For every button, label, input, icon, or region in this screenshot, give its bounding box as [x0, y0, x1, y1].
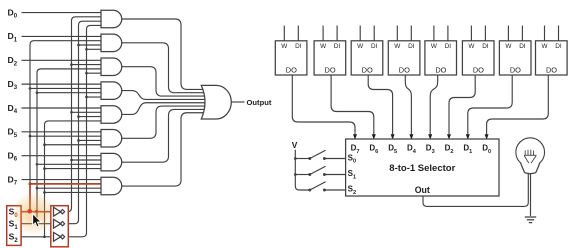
junction S0-bar — [70, 63, 73, 66]
AND gate G6 — [101, 130, 122, 148]
svg-text:DO: DO — [435, 65, 446, 74]
wire S1-bar branch gate6 — [79, 139, 102, 141]
junction S2-bar — [85, 72, 88, 75]
memory cell M0 box — [275, 41, 307, 75]
wire S2-bar vertical from inverter U3 — [65, 25, 101, 236]
wire DI stub M0 — [297, 26, 299, 41]
junction S0-bar — [70, 111, 73, 114]
wire S2-bar branch gate2 — [87, 48, 102, 50]
junction S2 — [43, 167, 46, 170]
wire S1 branch gate8 — [37, 187, 101, 189]
pin arrow D4 — [409, 134, 413, 139]
wire DI stub M7 — [558, 26, 560, 41]
wire M1 DO to selector D6 — [331, 75, 374, 134]
wire S0-bar branch gate3 — [72, 64, 102, 66]
AND gate G4 — [101, 82, 122, 100]
wire gate1 output — [122, 19, 209, 89]
svg-text:DO: DO — [473, 65, 484, 74]
AND gate G1 — [101, 10, 122, 28]
svg-text:W: W — [431, 43, 438, 50]
wire SW1 to selector S0 — [324, 158, 345, 160]
inverter U1 — [54, 207, 61, 216]
wire S0-bar branch gate7 — [72, 159, 102, 161]
junction S1 — [36, 163, 39, 166]
or-gate U9 — [201, 85, 231, 119]
wire V vertical — [295, 150, 310, 190]
junction S2-bar — [85, 96, 88, 99]
junction S1 — [36, 187, 39, 190]
wire S2-bar branch gate4 — [87, 96, 102, 98]
wire D1 input line — [22, 35, 102, 37]
memory cell M6 box — [499, 41, 531, 75]
wire gate5 output — [122, 103, 209, 115]
svg-text:DO: DO — [510, 65, 521, 74]
wire D3 input line — [22, 83, 102, 85]
wire M4 DO to selector D3 — [430, 75, 438, 134]
junction S1-bar — [77, 139, 80, 142]
svg-text:DO: DO — [399, 65, 410, 74]
wire W stub M1 — [322, 26, 324, 41]
junction S0 red (hover) — [27, 209, 32, 214]
wire S2 branch gate6 — [45, 144, 102, 146]
AND gate G5 — [101, 106, 122, 124]
wire S1-bar vertical from inverter U2 — [65, 21, 101, 224]
svg-text:DI: DI — [371, 43, 378, 50]
wire S0 branch gate6 — [30, 135, 101, 137]
pin arrow D2 — [447, 134, 451, 139]
wire DI stub M4 — [447, 26, 449, 41]
wire S1 row — [21, 223, 53, 225]
wire W stub M3 — [396, 26, 398, 41]
wire DI stub M1 — [336, 26, 338, 41]
wire highlighted S0 net vertical (red) — [29, 184, 31, 212]
wire DI stub M3 — [410, 26, 412, 41]
svg-text:8-to-1 Selector: 8-to-1 Selector — [389, 163, 455, 174]
cursor pointer — [33, 214, 41, 228]
svg-text:DO: DO — [325, 65, 336, 74]
svg-text:DI: DI — [408, 43, 415, 50]
AND gate G2 — [101, 34, 122, 52]
svg-text:Out: Out — [415, 185, 430, 195]
svg-text:W: W — [320, 43, 327, 50]
wire S2-bar branch gate3 — [87, 72, 102, 74]
wire gate7 output — [122, 109, 209, 162]
wire SW3 to selector S2 — [324, 189, 345, 191]
wire V branch SW1 — [295, 158, 310, 160]
wire S1 vertical — [37, 69, 101, 224]
pin arrow D0 — [485, 134, 489, 139]
switch SW1 — [308, 157, 311, 160]
wire S1 branch gate4 — [37, 92, 101, 94]
wire S1-bar branch gate5 — [79, 116, 102, 118]
wire M2 DO to selector D5 — [368, 75, 392, 134]
wire DI stub M2 — [373, 26, 375, 41]
svg-text:W: W — [541, 43, 548, 50]
wire S0 branch gate4 — [30, 87, 101, 89]
wire W stub M6 — [507, 26, 509, 41]
memory cell M2 box — [351, 41, 383, 75]
wire gate4 output — [122, 91, 209, 100]
wire S0-bar vertical from inverter U1 — [65, 17, 101, 212]
wire S1-bar branch gate2 — [79, 44, 102, 46]
svg-text:W: W — [468, 43, 475, 50]
junction S1 — [36, 91, 39, 94]
AND gate G3 — [101, 58, 122, 76]
wire W stub M0 — [283, 26, 285, 41]
wire M3 DO to selector D4 — [405, 75, 411, 134]
pin arrow D3 — [428, 134, 432, 139]
wire W stub M7 — [544, 26, 546, 41]
wire gate6 output — [122, 106, 209, 138]
svg-text:W: W — [281, 43, 288, 50]
selector U4 8-to-1 box — [346, 139, 499, 196]
inverter U2 — [54, 219, 61, 228]
wire D6 input line — [22, 155, 102, 157]
inverter U3 — [54, 232, 61, 241]
wire S0 row (highlighted red) — [21, 211, 53, 213]
wire M7 DO to selector D0 — [487, 75, 549, 134]
wire M0 DO to selector D7 — [292, 75, 355, 134]
junction S2 — [43, 143, 46, 146]
svg-text:W: W — [357, 43, 364, 50]
AND gate G7 — [101, 153, 122, 171]
wire D7 input line — [22, 179, 102, 181]
ground — [525, 217, 536, 223]
wire S2 branch gate8 — [45, 191, 102, 193]
wire S0 vertical — [30, 41, 101, 212]
pin arrow D1 — [466, 134, 470, 139]
svg-text:DO: DO — [286, 65, 297, 74]
svg-text:DI: DI — [334, 43, 341, 50]
junction S2-bar — [85, 48, 88, 51]
svg-text:DI: DI — [482, 43, 489, 50]
junction S0-bar — [70, 159, 73, 162]
wire W stub M4 — [433, 26, 435, 41]
wire D2 input line — [22, 59, 102, 61]
wire highlighted S0 branch to gate8 (red) — [30, 183, 101, 185]
svg-text:DI: DI — [555, 43, 562, 50]
wire OR output — [231, 101, 244, 103]
pin arrow D7 — [353, 134, 357, 139]
junction V-SW2 — [294, 173, 297, 176]
junction V-SW1 — [294, 157, 297, 160]
lamp L1 bulb — [516, 138, 545, 174]
memory cell M7 box — [536, 41, 568, 75]
memory cell M5 box — [462, 41, 494, 75]
wire gate8 output — [122, 113, 209, 186]
wire S0-bar branch gate5 — [72, 111, 102, 113]
pin arrow D6 — [372, 134, 376, 139]
wire M6 DO to selector D1 — [468, 75, 512, 134]
wire W stub M2 — [359, 26, 361, 41]
svg-text:DO: DO — [546, 65, 557, 74]
wire S2 branch gate7 — [45, 168, 102, 170]
junction S1-bar — [77, 115, 80, 118]
wire D4 input line — [22, 107, 102, 109]
highlight glow — [12, 192, 55, 235]
switch SW2 — [308, 173, 311, 176]
junction S1 row dot — [36, 222, 39, 225]
svg-text:DI: DI — [445, 43, 452, 50]
junction red corner at gate8 branch — [29, 182, 32, 185]
inverter box (red) — [51, 206, 69, 247]
svg-text:DI: DI — [295, 43, 302, 50]
wire SW2 to selector S1 — [324, 174, 345, 176]
wire S2 row — [21, 236, 53, 238]
wire V branch SW2 — [295, 174, 310, 176]
wire M5 DO to selector D2 — [449, 75, 475, 134]
wire gate2 output — [122, 43, 209, 93]
memory cell M3 box — [388, 41, 420, 75]
wire D0 input line — [22, 12, 102, 14]
wire Out to lamp — [423, 174, 528, 207]
junction S2 — [43, 191, 46, 194]
wire S1 branch gate7 — [37, 163, 101, 165]
wire W stub M5 — [470, 26, 472, 41]
wire DI stub M5 — [484, 26, 486, 41]
svg-text:DI: DI — [519, 43, 526, 50]
pin arrow D5 — [391, 134, 395, 139]
AND gate G8 — [101, 177, 122, 195]
junction S0-gate4 — [29, 87, 32, 90]
wire D5 input line — [22, 131, 102, 133]
junction S2-S2row — [43, 235, 46, 238]
svg-text:V: V — [292, 140, 298, 150]
switch SW3 — [308, 189, 311, 192]
wire DI stub M6 — [521, 26, 523, 41]
junction small red — [35, 210, 38, 213]
svg-text:W: W — [394, 43, 401, 50]
node S0/S1/S2 input box (red) — [7, 206, 21, 246]
junction S1-S1row — [36, 222, 39, 225]
junction S1-bar — [77, 44, 80, 47]
memory cell M1 box — [314, 41, 346, 75]
junction S0-gate6 — [29, 135, 32, 138]
wire S2 vertical — [45, 121, 102, 237]
wire gate3 output — [122, 67, 209, 96]
svg-text:DO: DO — [362, 65, 373, 74]
svg-text:Output: Output — [247, 98, 272, 107]
svg-text:W: W — [505, 43, 512, 50]
memory cell M4 box — [425, 41, 457, 75]
wire lamp to ground — [530, 174, 532, 216]
